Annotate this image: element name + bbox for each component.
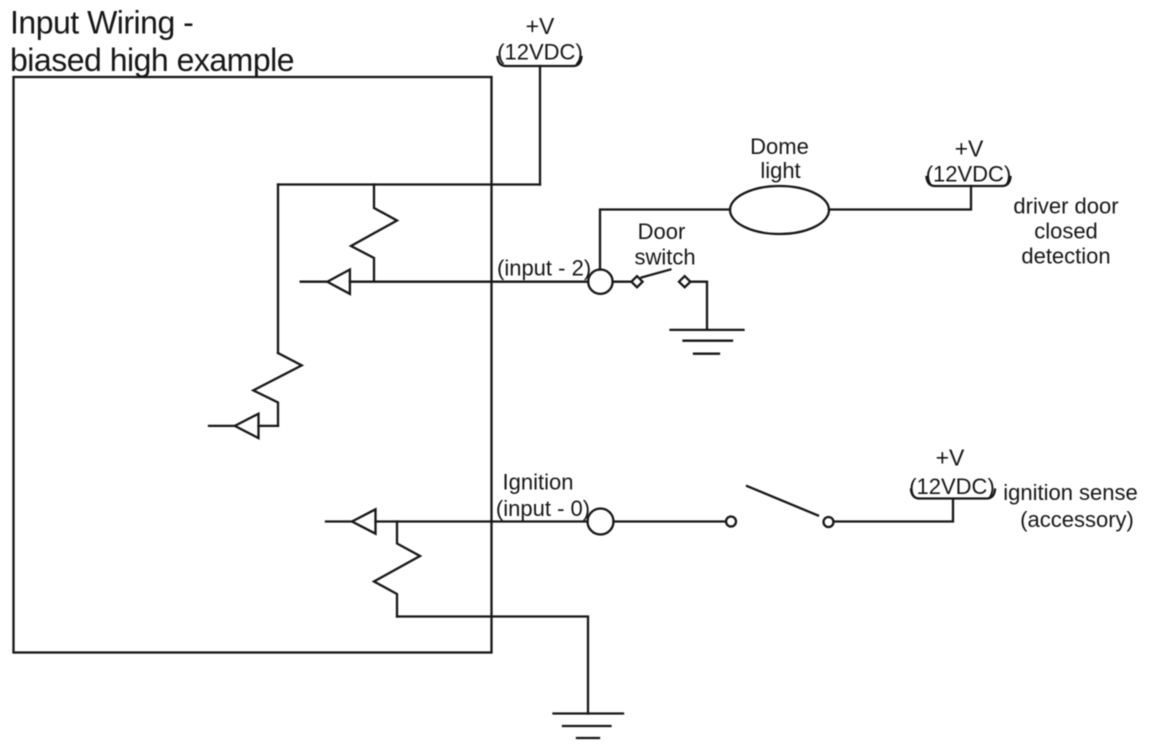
svg-text:(input - 2): (input - 2) bbox=[497, 256, 591, 281]
enclosure box bbox=[14, 77, 492, 653]
tag +V dome bbox=[927, 177, 1011, 186]
wire left branch bbox=[277, 185, 279, 354]
lamp dome light bbox=[730, 186, 829, 234]
svg-text:biased high example: biased high example bbox=[10, 42, 294, 78]
wire U2 stub bbox=[209, 425, 235, 427]
resistor R2 bbox=[253, 353, 301, 426]
svg-text:(12VDC): (12VDC) bbox=[926, 162, 1012, 187]
switch ignition contact 2 bbox=[824, 517, 834, 527]
svg-text:(accessory): (accessory) bbox=[1020, 507, 1134, 532]
terminal input-0 bbox=[588, 509, 614, 535]
wire R3 to ground bbox=[397, 617, 588, 714]
wire +V top drop bbox=[539, 66, 541, 185]
wire U2 to R2 bbox=[259, 425, 279, 427]
svg-text:+V: +V bbox=[955, 136, 984, 162]
switch door: left lead bbox=[613, 281, 632, 283]
switch ignition lever bbox=[747, 486, 818, 516]
svg-text:Dome: Dome bbox=[750, 134, 809, 159]
resistor R3 bbox=[374, 522, 420, 617]
wire switch to ground bbox=[690, 282, 707, 330]
terminal input-2 bbox=[588, 270, 612, 294]
svg-text:Door: Door bbox=[638, 219, 686, 244]
buffer U2 bbox=[235, 414, 259, 438]
wire top rail bbox=[278, 183, 540, 185]
resistor R1 bbox=[351, 185, 397, 281]
wire dome to +V bbox=[829, 186, 971, 210]
svg-text:(12VDC): (12VDC) bbox=[497, 40, 583, 65]
svg-text:+V: +V bbox=[526, 13, 555, 39]
buffer U3 bbox=[352, 509, 376, 533]
tag +V top bbox=[498, 57, 582, 66]
tag +V ignition bbox=[911, 490, 995, 499]
svg-text:(12VDC): (12VDC) bbox=[909, 474, 995, 499]
switch door contact 2 (diamond) bbox=[679, 276, 690, 287]
svg-text:driver door: driver door bbox=[1013, 194, 1118, 219]
svg-text:switch: switch bbox=[634, 245, 695, 270]
ground door switch bbox=[671, 330, 744, 354]
svg-text:Input Wiring -: Input Wiring - bbox=[10, 5, 193, 41]
svg-text:closed: closed bbox=[1034, 219, 1098, 244]
wire switch to +V bbox=[834, 499, 954, 522]
svg-text:Ignition: Ignition bbox=[503, 470, 574, 495]
svg-text:light: light bbox=[760, 158, 800, 183]
wire dome drop bbox=[600, 210, 730, 270]
ground main bbox=[554, 714, 624, 739]
wire input-2 bbox=[350, 281, 588, 283]
wire U1 stub bbox=[301, 281, 328, 283]
wire to switch bbox=[614, 520, 727, 522]
switch ignition contact 1 bbox=[726, 517, 736, 527]
svg-text:detection: detection bbox=[1021, 244, 1110, 269]
switch door lever bbox=[642, 270, 671, 278]
svg-text:ignition sense: ignition sense bbox=[1003, 480, 1138, 505]
switch door contact 1 (diamond) bbox=[631, 276, 642, 287]
svg-text:(input - 0): (input - 0) bbox=[496, 496, 590, 521]
wire ignition input bbox=[376, 520, 588, 522]
wire U3 stub bbox=[326, 520, 352, 522]
svg-text:+V: +V bbox=[936, 445, 965, 471]
buffer U1 bbox=[327, 270, 350, 294]
